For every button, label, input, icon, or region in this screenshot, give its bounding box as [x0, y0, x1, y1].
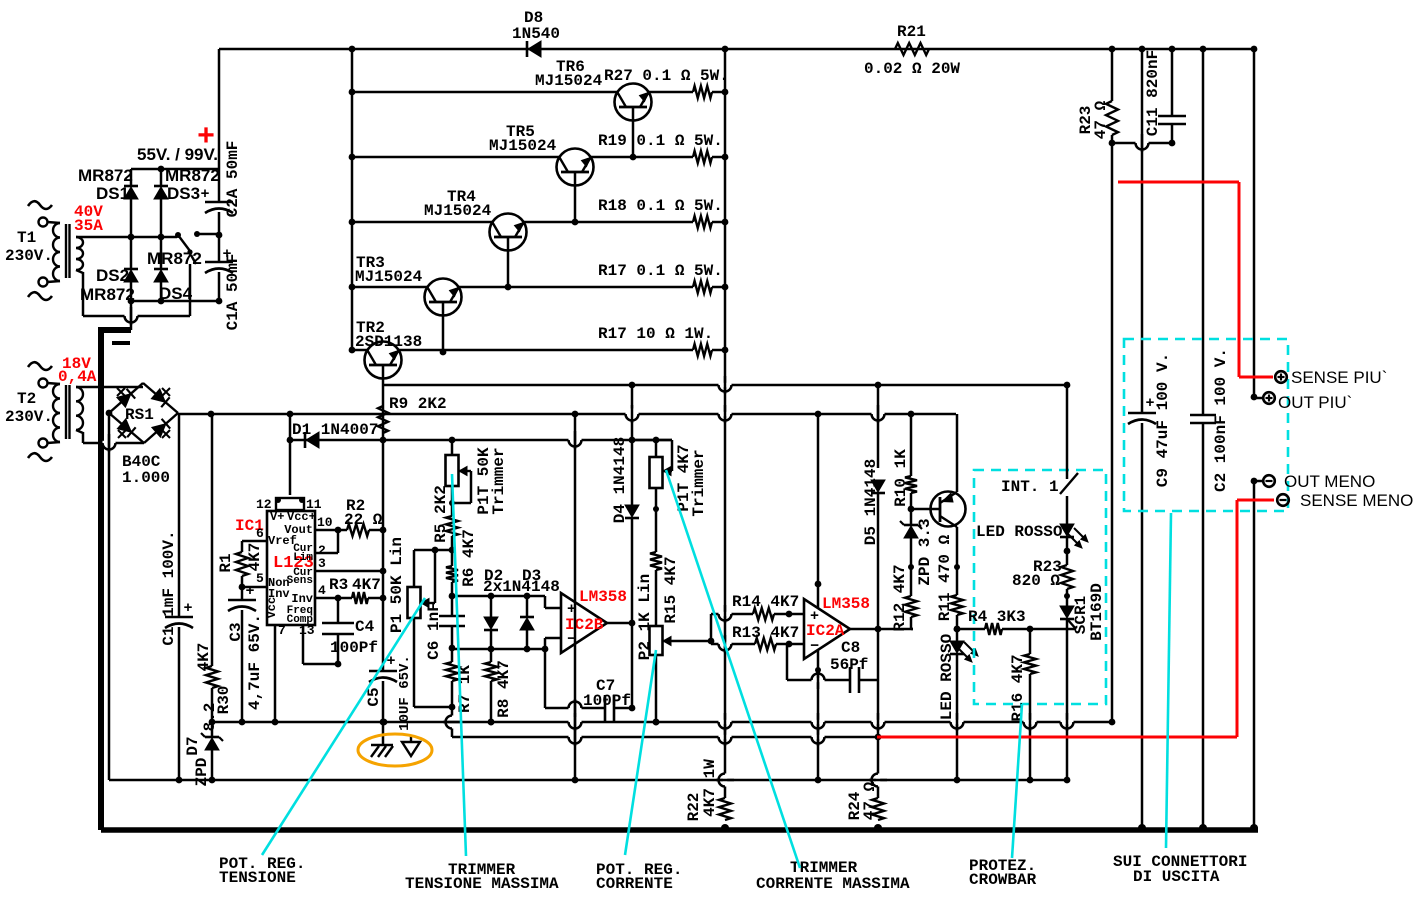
- svg-text:+: +: [245, 583, 254, 600]
- svg-text:0,4A: 0,4A: [58, 368, 97, 386]
- potentiometer P2 1K Lin: [655, 570, 658, 626]
- wire base line TR2: [352, 349, 368, 352]
- resistor R10 1K: [910, 414, 913, 476]
- capacitor C2A 50mF: [218, 169, 221, 202]
- svg-text:4: 4: [318, 583, 326, 598]
- diode DS3 MR872: [160, 169, 163, 186]
- svg-text:ZPD 3.3: ZPD 3.3: [916, 518, 934, 585]
- svg-text:LM358: LM358: [579, 588, 627, 606]
- pin 5 non inverting wire: [242, 586, 267, 589]
- capacitor C6 1nF: [451, 596, 454, 616]
- svg-text:IC2B: IC2B: [565, 616, 604, 634]
- wire ground bus A: [212, 721, 1112, 724]
- op-amp IC2B LM358: [561, 593, 607, 653]
- svg-text:820 Ω: 820 Ω: [1012, 572, 1060, 590]
- op IC1 L123 regulator box: [267, 511, 315, 625]
- wire collector TR5: [574, 172, 577, 222]
- svg-text:R17 10 Ω 1W.: R17 10 Ω 1W.: [598, 325, 713, 343]
- wire emitter resistor bus right: [724, 49, 727, 798]
- pin 6 Vref wire to R1: [242, 540, 267, 543]
- svg-text:DS1: DS1: [96, 184, 129, 203]
- diode D1 1N4007: [290, 439, 383, 442]
- capacitor C1A 50mF: [205, 261, 233, 264]
- svg-text:DS2: DS2: [96, 266, 129, 285]
- svg-text:IC2A: IC2A: [806, 622, 845, 640]
- svg-text:C1A 50mF: C1A 50mF: [224, 254, 242, 331]
- svg-text:R11 470 Ω: R11 470 Ω: [936, 534, 954, 621]
- svg-text:D7: D7: [184, 736, 202, 755]
- svg-text:C1 1mF 100V.: C1 1mF 100V.: [160, 530, 178, 645]
- wire emitter reference bus: [383, 384, 1067, 387]
- wire SCR gate: [1002, 628, 1076, 631]
- svg-text:56Pf: 56Pf: [830, 656, 868, 674]
- resistor R1 4K7: [241, 541, 244, 552]
- svg-text:Sens: Sens: [287, 575, 313, 587]
- svg-text:22 Ω: 22 Ω: [344, 511, 383, 529]
- svg-text:DI USCITA: DI USCITA: [1133, 868, 1220, 886]
- resistor R9 2K2: [382, 385, 385, 440]
- wire Q emitter to 18V line: [956, 414, 959, 492]
- label minus: [112, 341, 130, 345]
- svg-text:P2 1K Lin: P2 1K Lin: [636, 574, 654, 660]
- svg-text:C2 100nF 100 V.: C2 100nF 100 V.: [1212, 348, 1230, 492]
- transistor TR6 MJ15024: [615, 84, 652, 121]
- transistor Q crowbar driver PNP: [931, 492, 966, 527]
- resistor R6 4K7: [451, 550, 454, 566]
- resistor R23 820 ohm: [1061, 565, 1073, 589]
- ac source squiggles: [28, 201, 52, 209]
- svg-text:3: 3: [318, 556, 326, 571]
- svg-text:R14 4K7: R14 4K7: [732, 593, 799, 611]
- svg-text:Inv: Inv: [291, 592, 313, 606]
- transistor TR2 2SD1138: [365, 342, 402, 379]
- wire plus net vertical upper: [817, 414, 820, 608]
- wire IC2A output: [850, 628, 913, 631]
- callout trimmer tensione massima: [452, 474, 466, 856]
- svg-text:R1: R1: [217, 553, 235, 572]
- svg-text:+: +: [200, 186, 209, 203]
- svg-text:TENSIONE: TENSIONE: [219, 869, 296, 887]
- wire OUT PIU column: [1253, 49, 1256, 397]
- wire collector bus left: [351, 49, 354, 350]
- diode D4 1N4148: [631, 385, 634, 409]
- resistor emitter TR3: R17 0.1 Ω 5W.: [693, 281, 712, 293]
- wire R23 C11 jumper: [1112, 142, 1172, 145]
- svg-text:CORRENTE: CORRENTE: [596, 875, 673, 893]
- svg-text:D4 1N4148: D4 1N4148: [611, 437, 629, 523]
- callout trimmer corrente massima: [666, 470, 800, 868]
- connector OUT PIU: [1263, 392, 1275, 404]
- diode DS4 MR872: [160, 237, 163, 269]
- wire AC2 bottom: [189, 264, 192, 316]
- wire collector TR6: [632, 107, 635, 157]
- svg-text:+: +: [183, 600, 192, 617]
- connector SENSE MENO: [1277, 494, 1289, 506]
- callout pot reg corrente: [625, 650, 656, 855]
- thyristor SCR1 BT169D: [1060, 606, 1074, 618]
- svg-text:P1 50K Lin: P1 50K Lin: [388, 537, 406, 633]
- svg-text:LM358: LM358: [822, 595, 870, 613]
- svg-text:OUT PIU`: OUT PIU`: [1278, 393, 1352, 412]
- svg-text:T2: T2: [17, 390, 36, 408]
- capacitor C1 1mF 100V: [178, 414, 181, 617]
- svg-text:Vcc+: Vcc+: [287, 510, 316, 524]
- pins 12 11 top strap: [276, 498, 304, 510]
- wire R22 path hop over bus C: [723, 774, 727, 787]
- resistor emitter TR6: R27 0.1 Ω 5W.: [693, 86, 712, 98]
- wire trimmer P1T 4K7 branch: [632, 439, 672, 442]
- svg-text:R13 4K7: R13 4K7: [732, 624, 799, 642]
- zener D7 ZPD 8.2: [209, 719, 216, 726]
- led LED ROSSO lower: [950, 641, 964, 653]
- svg-text:SENSE MENO: SENSE MENO: [1300, 491, 1413, 510]
- capacitor C3 4,7uF 65V: [241, 587, 244, 600]
- svg-text:R3: R3: [329, 576, 348, 594]
- svg-text:OUT MENO: OUT MENO: [1284, 472, 1375, 491]
- wire base line TR5: [352, 156, 560, 159]
- svg-text:C6 1nF: C6 1nF: [425, 602, 443, 660]
- pin 7 Vcc- wire to ground bus: [274, 625, 277, 722]
- resistor R21 0.02 ohm 20W: [895, 43, 929, 55]
- resistor R23 47 ohm snubber: [1111, 49, 1114, 101]
- output dashed box: [1124, 339, 1288, 511]
- wire emitter TR4: [523, 221, 693, 224]
- trimmer P1T 50K: [451, 440, 454, 455]
- wire collector TR4: [507, 237, 510, 287]
- svg-text:47 Ω: 47 Ω: [1092, 100, 1110, 139]
- wire base line TR3: [352, 286, 428, 289]
- resistor R24 47 ohm: [872, 798, 884, 820]
- ground chassis symbol: [382, 722, 385, 744]
- led LED ROSSO upper: [1060, 524, 1074, 536]
- svg-text:LED ROSSO: LED ROSSO: [976, 523, 1063, 541]
- ac source squiggles: [28, 362, 52, 370]
- resistor emitter TR2: R17 10 Ω 1W.: [693, 344, 712, 356]
- capacitor C9 47uF 100V column: [1141, 49, 1144, 413]
- wire thick minus bus: [101, 827, 1258, 833]
- svg-text:C8: C8: [841, 639, 860, 657]
- svg-text:R10 1K: R10 1K: [892, 449, 910, 507]
- svg-text:TENSIONE MASSIMA: TENSIONE MASSIMA: [405, 875, 559, 893]
- svg-text:ZPD: ZPD: [193, 758, 211, 787]
- wire minus input line: [452, 648, 545, 651]
- callout protez crowbar: [1012, 704, 1022, 858]
- wire red sense piu: [1118, 181, 1239, 184]
- resistor R2 22 ohm: [338, 529, 347, 532]
- wire D1 line to D4: [383, 439, 672, 442]
- wire IC2B output: [607, 622, 632, 625]
- wire base line TR6: [352, 91, 618, 94]
- resistor R11 470 ohm: [951, 595, 963, 615]
- callout sui connettori di uscita: [1166, 513, 1171, 848]
- svg-text:R18 0.1 Ω 5W.: R18 0.1 Ω 5W.: [598, 197, 723, 215]
- diode D8 1N540: [526, 41, 529, 57]
- svg-text:R17 0.1 Ω 5W.: R17 0.1 Ω 5W.: [598, 262, 723, 280]
- resistor R13 4K7: [711, 643, 755, 646]
- capacitor C8 56Pf: [786, 644, 789, 680]
- svg-text:100Pf: 100Pf: [330, 639, 378, 657]
- resistor R4 3K3: [954, 626, 961, 633]
- svg-text:D3: D3: [522, 567, 541, 585]
- svg-text:Trimmer: Trimmer: [690, 449, 708, 516]
- svg-text:D5 1N4148: D5 1N4148: [862, 459, 880, 545]
- svg-text:1N540: 1N540: [512, 25, 560, 43]
- svg-text:230V.: 230V.: [5, 247, 53, 265]
- op-amp IC2A LM358: [804, 599, 850, 659]
- svg-text:10: 10: [317, 515, 333, 530]
- pin 2 current limit wire: [315, 552, 338, 555]
- ground earth symbol: [410, 735, 412, 742]
- wire RS1 minus to ground bus: [108, 413, 111, 780]
- svg-text:5: 5: [256, 571, 264, 586]
- resistor R7 1K: [451, 648, 454, 662]
- wire plus net vertical lower to ground bus: [817, 650, 820, 780]
- resistor R3 4K7: [352, 592, 368, 604]
- wire R7 to bus B with hop: [451, 707, 454, 737]
- potentiometer P1 50K Lin: [414, 549, 452, 552]
- svg-text:C4: C4: [355, 618, 375, 636]
- wire Q collector: [956, 527, 959, 567]
- wire T2 secondary bottom: [76, 430, 83, 433]
- svg-text:2SD1138: 2SD1138: [355, 333, 422, 351]
- wire collector TR2: [382, 365, 385, 385]
- capacitor C4 100Pf: [337, 598, 340, 623]
- svg-text:C3: C3: [227, 622, 245, 641]
- wire ground bus C: [109, 779, 1067, 782]
- svg-text:1.000: 1.000: [122, 469, 170, 487]
- wire red sense meno: [1237, 499, 1274, 502]
- svg-text:R12 4K7: R12 4K7: [891, 564, 909, 631]
- wire minus to thick bus: [130, 301, 133, 330]
- wire collector TR3: [442, 302, 445, 352]
- resistor R8 4K7: [490, 649, 493, 662]
- wire bus B: [452, 736, 877, 739]
- wire RS1 plus 18V line: [178, 413, 956, 416]
- svg-text:D1 1N4007: D1 1N4007: [292, 421, 378, 439]
- resistor R22 4K7 1W: [719, 798, 731, 820]
- wire wiper to R13 R14: [710, 614, 713, 641]
- svg-text:R15 4K7: R15 4K7: [662, 556, 680, 623]
- resistor R12 4K7: [910, 509, 913, 525]
- svg-text:230V.: 230V.: [5, 408, 53, 426]
- pin 4 inverting input wire: [315, 597, 338, 600]
- svg-text:C9 47uF 100 V.: C9 47uF 100 V.: [1154, 353, 1172, 487]
- svg-text:MJ15024: MJ15024: [535, 72, 603, 90]
- svg-text:R21: R21: [897, 23, 926, 41]
- svg-text:INT. 1: INT. 1: [1001, 478, 1059, 496]
- pin 10 Vout wire: [315, 529, 338, 532]
- svg-text:13: 13: [299, 623, 315, 638]
- diode D3 1N4148: [526, 596, 529, 617]
- svg-text:MJ15024: MJ15024: [355, 268, 423, 286]
- wire emitter TR3: [458, 286, 693, 289]
- resistor emitter TR4: R18 0.1 Ω 5W.: [693, 216, 712, 228]
- svg-text:35A: 35A: [74, 217, 103, 235]
- svg-text:R5 2K2: R5 2K2: [432, 485, 450, 543]
- wire T2 secondary top: [76, 386, 143, 389]
- diode DS1 MR872: [130, 169, 133, 186]
- svg-text:R8 4K7: R8 4K7: [495, 660, 513, 718]
- svg-text:R4 3K3: R4 3K3: [968, 608, 1026, 626]
- wire emitter bus to INT 1: [1066, 385, 1069, 479]
- resistor emitter TR5: R19 0.1 Ω 5W.: [693, 151, 712, 163]
- diode D2 1N4148: [490, 596, 493, 617]
- svg-text:10UF 65V.: 10UF 65V.: [397, 655, 413, 731]
- wire IC1 supply from 18V line: [289, 414, 292, 495]
- bridge rectifier RS1 B40C 1.000: [109, 383, 143, 413]
- capacitor C2 100nF 100V column: [1202, 49, 1205, 415]
- svg-text:LED ROSSO: LED ROSSO: [938, 633, 956, 720]
- resistor R16 4K7: [1027, 626, 1034, 633]
- resistor R15 4K7: [655, 488, 658, 552]
- svg-text:MR872: MR872: [78, 166, 133, 185]
- svg-text:8.2: 8.2: [201, 703, 219, 732]
- svg-text:T1: T1: [17, 229, 36, 247]
- svg-text:RS1: RS1: [125, 406, 154, 424]
- wire bridge top bus: [131, 168, 219, 171]
- wire emitter TR2: [398, 349, 693, 352]
- svg-text:DS3: DS3: [167, 184, 200, 203]
- svg-text:4K7: 4K7: [195, 643, 213, 672]
- svg-text:Vcc-: Vcc-: [265, 590, 279, 619]
- svg-text:SENSE PIU`: SENSE PIU`: [1291, 368, 1387, 387]
- trimmer P1T 4K7: [655, 440, 658, 457]
- ground highlight ellipse: [358, 734, 432, 766]
- svg-text:Trimmer: Trimmer: [490, 447, 508, 514]
- diode D5 1N4148: [877, 385, 880, 468]
- svg-text:47 Ω: 47 Ω: [861, 781, 879, 820]
- svg-text:Lim: Lim: [293, 552, 313, 564]
- wire plus input line: [452, 595, 545, 598]
- svg-text:7: 7: [278, 623, 286, 638]
- diode DS2 MR872: [130, 237, 133, 269]
- svg-text:0.02 Ω 20W: 0.02 Ω 20W: [864, 60, 960, 78]
- connector SENSE PIU: [1275, 371, 1287, 383]
- transistor TR4 MJ15024: [490, 214, 527, 251]
- node AC1: [128, 234, 135, 241]
- svg-text:MR872: MR872: [165, 166, 220, 185]
- crowbar protection dashed box: [974, 470, 1106, 704]
- pin 3 current sense wire: [315, 570, 383, 573]
- wire T1 secondary bottom: [76, 270, 83, 273]
- svg-text:R6 4K7: R6 4K7: [460, 529, 478, 587]
- svg-text:6: 6: [256, 526, 264, 541]
- svg-text:MR872: MR872: [80, 285, 135, 304]
- capacitor C11 820nF: [1171, 49, 1174, 116]
- wire base line TR4: [352, 221, 493, 224]
- capacitor C7 100Pf: [544, 649, 547, 708]
- svg-text:V+: V+: [270, 510, 284, 524]
- wire R23 column to ground bus A: [1111, 143, 1114, 722]
- wire reference node vertical: [382, 440, 385, 598]
- wire +V riser to top rail: [218, 49, 221, 169]
- svg-text:4,7uF 65V.: 4,7uF 65V.: [246, 614, 264, 710]
- wire +V top rail: [219, 48, 1253, 51]
- transistor TR5 MJ15024: [557, 149, 594, 186]
- switch series/parallel: [175, 232, 181, 238]
- wire bridge bottom bus: [131, 300, 219, 303]
- svg-text:CROWBAR: CROWBAR: [969, 871, 1037, 889]
- svg-text:4K7 1W: 4K7 1W: [701, 759, 719, 817]
- resistor R14 4K7: [711, 613, 753, 616]
- svg-text:R27 0.1 Ω 5W.: R27 0.1 Ω 5W.: [604, 67, 729, 85]
- connector OUT MENO: [1263, 475, 1275, 487]
- svg-text:4K7: 4K7: [246, 543, 264, 572]
- wire emitter TR5: [590, 156, 693, 159]
- svg-text:R16 4K7: R16 4K7: [1009, 654, 1027, 721]
- svg-text:MJ15024: MJ15024: [489, 137, 557, 155]
- svg-text:4K7: 4K7: [352, 576, 381, 594]
- svg-text:CORRENTE MASSIMA: CORRENTE MASSIMA: [756, 875, 910, 893]
- resistor R5 2K2: [451, 486, 454, 516]
- node R5 R6 P1: [451, 536, 454, 550]
- svg-text:MJ15024: MJ15024: [424, 202, 492, 220]
- svg-text:BT169D: BT169D: [1088, 583, 1106, 641]
- wire T1 secondary top to bridge: [76, 236, 177, 239]
- svg-text:100Pf: 100Pf: [583, 692, 631, 710]
- wire vertical 575 from 18V line: [574, 414, 577, 780]
- svg-text:R9 2K2: R9 2K2: [389, 395, 447, 413]
- wire output to bus B and R24: [877, 680, 880, 798]
- callout pot reg tensione: [262, 598, 425, 855]
- svg-text:C11 820nF: C11 820nF: [1144, 50, 1162, 136]
- svg-text:R19 0.1 Ω 5W.: R19 0.1 Ω 5W.: [598, 132, 723, 150]
- wire emitter TR6: [648, 91, 693, 94]
- resistor R30 4K7: [211, 414, 214, 666]
- wire OUT MENO column: [1253, 481, 1256, 828]
- switch INT. 1: [1060, 473, 1078, 494]
- capacitor C5 10UF 65V: [382, 598, 385, 671]
- svg-text:+: +: [197, 119, 215, 152]
- svg-text:C2A 50mF: C2A 50mF: [224, 141, 242, 218]
- zener ZPD 3.3: [904, 526, 918, 538]
- transistor TR3 MJ15024: [425, 279, 462, 316]
